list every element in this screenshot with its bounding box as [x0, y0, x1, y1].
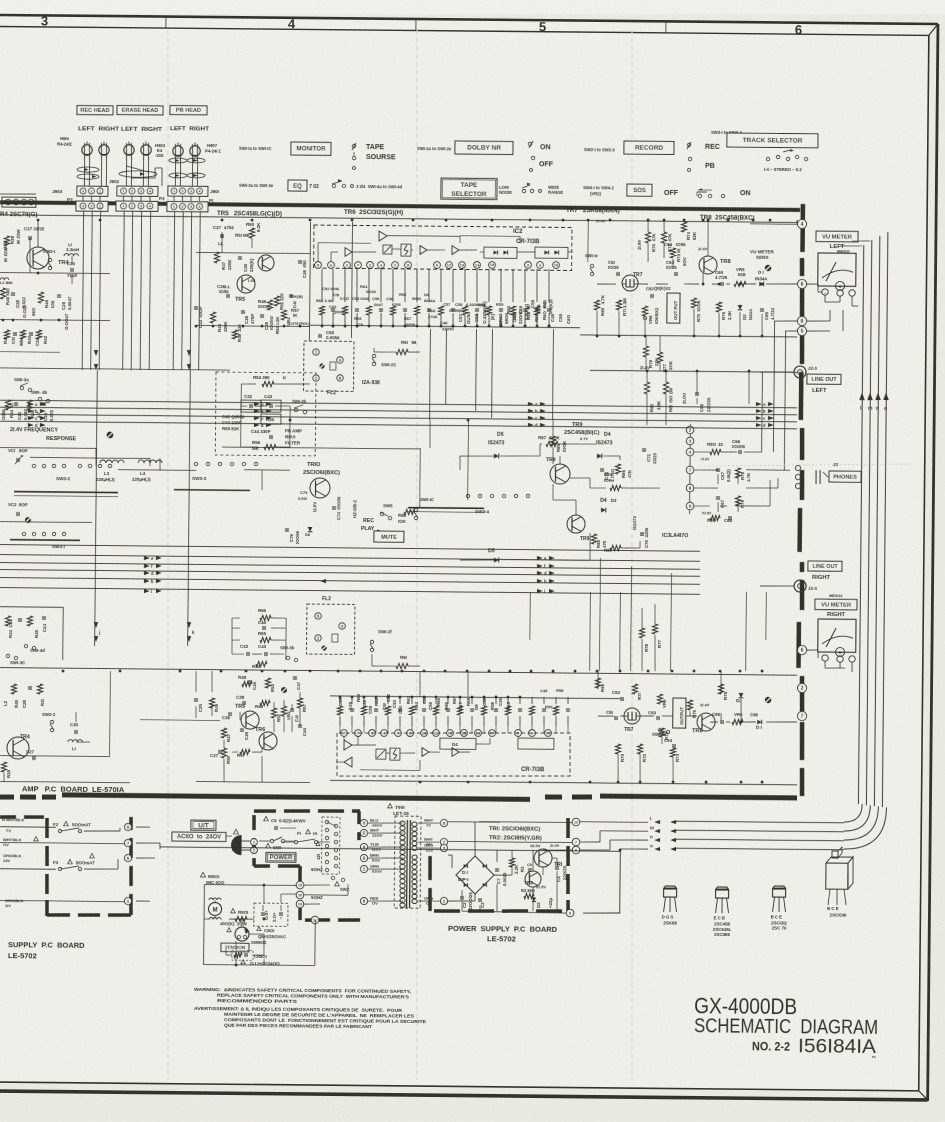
label box U/T [191, 820, 216, 830]
svg-text:R47: R47 [221, 261, 226, 270]
IC2 diode box 1 [484, 247, 517, 258]
svg-text:8OOmAT: 8OOmAT [76, 860, 95, 865]
svg-text:R69: R69 [600, 683, 605, 692]
connector P2 [116, 201, 158, 211]
svg-text:SWI-Ia to SWI-IC: SWI-Ia to SWI-IC [239, 146, 272, 151]
label box PB HEAD [170, 106, 207, 115]
phone jack symbol [815, 470, 817, 484]
vu meter left body [818, 253, 856, 286]
power supply pins right [572, 818, 580, 826]
svg-text:23V: 23V [3, 858, 10, 863]
svg-text:C6I: C6I [606, 710, 613, 715]
label box PHONES [829, 471, 861, 482]
arrow down j [94, 636, 98, 642]
svg-text:ERASE HEAD: ERASE HEAD [122, 108, 159, 114]
svg-text:D I: D I [756, 725, 762, 730]
svg-text:0.02I: 0.02I [340, 296, 349, 301]
svg-text:R67: R67 [452, 695, 457, 704]
svg-text:R3: R3 [520, 866, 525, 872]
switch row SW3-1 [22, 532, 25, 535]
svg-text:OFF: OFF [539, 161, 554, 168]
svg-text:Q0(K)X2: Q0(K)X2 [654, 286, 671, 291]
svg-text:RIGHT: RIGHT [812, 575, 831, 581]
svg-text:C28: C28 [15, 299, 20, 308]
AC plug symbol [231, 835, 241, 854]
svg-text:ON: ON [540, 144, 551, 151]
svg-text:O.O22: O.O22 [22, 305, 27, 319]
svg-text:SWI- 4b: SWI- 4b [31, 390, 47, 395]
wire TR4 rail [0, 273, 110, 274]
svg-text:IN34A: IN34A [755, 276, 768, 281]
svg-text:D4: D4 [604, 432, 611, 438]
svg-text:VC2 8OP: VC2 8OP [8, 502, 28, 507]
svg-text:C43: C43 [258, 644, 267, 649]
svg-text:D5: D5 [497, 432, 504, 438]
label box ERASE HEAD [117, 106, 163, 115]
wires lmno taps upper right [745, 592, 748, 671]
svg-text:C44: C44 [258, 620, 267, 625]
svg-text:IO.8V: IO.8V [702, 511, 712, 515]
svg-text:IC3LA4I7O: IC3LA4I7O [662, 533, 688, 539]
svg-text:D8: D8 [474, 704, 479, 710]
svg-text:I2A-938: I2A-938 [362, 380, 380, 386]
svg-text:C33 IOOP: C33 IOOP [198, 306, 203, 328]
svg-text:R74: R74 [686, 231, 691, 240]
rail below TR8 y371 [590, 370, 797, 372]
svg-text:C30: C30 [67, 261, 76, 266]
svg-text:IOOK: IOOK [562, 440, 567, 452]
svg-text:47P(K): 47P(K) [296, 321, 309, 326]
shield ellipse erase (long) [119, 171, 157, 178]
terminal circled 2c [686, 426, 694, 434]
svg-text:C66: C66 [764, 311, 769, 320]
upper channel bottom rail right [580, 335, 797, 337]
svg-text:VU METER: VU METER [821, 602, 852, 608]
primary select contacts [325, 820, 328, 823]
connector P3 [76, 201, 108, 211]
primary taps [360, 819, 367, 826]
record switch contacts [687, 143, 690, 146]
svg-text:SW3-2: SW3-2 [56, 476, 71, 481]
svg-text:-200: -200 [155, 153, 164, 158]
svg-text:5: 5 [801, 329, 804, 335]
svg-text:4: 4 [288, 16, 296, 31]
svg-text:R83: R83 [596, 539, 601, 548]
connector J901 [168, 186, 208, 196]
svg-text:TR6: TR6 [255, 727, 265, 733]
IC3 pin edge line [689, 424, 692, 514]
svg-text:R46: R46 [44, 299, 49, 308]
svg-text:LEFT RIGHT LEFT RIGHT: LEFT RIGHT LEFT RIGHT [78, 126, 163, 133]
svg-text:C76: C76 [289, 533, 294, 542]
phones wires [694, 451, 710, 453]
jack J3 phones circles [795, 465, 800, 470]
lower diode box 1 [440, 738, 476, 749]
svg-text:22O/25: 22O/25 [562, 865, 567, 880]
svg-text:n: n [876, 406, 879, 412]
svg-text:R69 4.7K: R69 4.7K [600, 294, 605, 316]
svg-text:4: 4 [801, 222, 804, 228]
svg-text:3: 3 [82, 189, 84, 193]
svg-text:R6I: R6I [400, 655, 407, 660]
svg-text:C34: C34 [43, 412, 48, 421]
svg-text:56O: 56O [31, 307, 36, 316]
svg-text:C40: C40 [252, 681, 257, 690]
power primary dashed thick box [254, 809, 276, 813]
svg-text:1: 1 [122, 204, 124, 208]
svg-text:C42: C42 [244, 394, 253, 399]
svg-text:22O/IO: 22O/IO [518, 309, 523, 324]
supply pin 8 [124, 823, 131, 830]
wires ps to lmno [580, 821, 648, 824]
vu sens screw lower [765, 697, 771, 703]
svg-text:R58 IK: R58 IK [526, 304, 531, 320]
svg-text:R67: R67 [498, 313, 503, 322]
svg-text:J90I: J90I [210, 189, 219, 194]
resistor box R55 [261, 414, 281, 424]
svg-text:28.9V: 28.9V [530, 843, 541, 848]
lower slash box [376, 749, 386, 759]
svg-text:J903: J903 [52, 189, 63, 194]
terminal circled 8 [797, 316, 806, 325]
connector P1 [167, 202, 208, 212]
svg-text:RECOMMENDED PARTS: RECOMMENDED PARTS [217, 998, 297, 1004]
IC2 bottom rail [310, 325, 580, 328]
tape head symbol 1 [82, 145, 92, 155]
dotted crease line right [700, 462, 912, 468]
svg-text:SW2-I: SW2-I [43, 249, 55, 254]
svg-text:LINE OUT: LINE OUT [811, 377, 837, 383]
svg-text:2SC458(BI(C): 2SC458(BI(C) [564, 430, 600, 436]
svg-text:H90I: H90I [60, 136, 69, 141]
svg-text:i: i [544, 589, 545, 594]
svg-text:ME9O2: ME9O2 [829, 593, 843, 598]
svg-text:330K: 330K [223, 321, 228, 332]
svg-text:2OK: 2OK [668, 360, 673, 370]
label box DOLBY NR [455, 141, 513, 155]
svg-text:C58: C58 [482, 697, 487, 706]
svg-text:L2 IMH: L2 IMH [0, 281, 13, 285]
switch row SW3-2 [32, 464, 35, 467]
svg-text:VR6: VR6 [648, 315, 653, 324]
svg-text:220K: 220K [227, 259, 232, 270]
svg-text:R66: R66 [399, 292, 407, 297]
lower left wires [0, 756, 110, 757]
wires meters to lmno [840, 245, 862, 247]
wires to line out left [640, 487, 660, 489]
svg-text:0.00I: 0.00I [298, 496, 307, 501]
dolby switch contacts [528, 142, 531, 145]
svg-text:IOK: IOK [398, 519, 407, 524]
amp board bus line (thick) [0, 202, 800, 210]
svg-text:C7: C7 [496, 878, 501, 884]
svg-text:SWI-3a to SWI-3e: SWI-3a to SWI-3e [239, 183, 274, 188]
svg-text:C57: C57 [443, 302, 451, 307]
label box LINE OUT right [808, 561, 842, 571]
svg-text:C49: C49 [550, 313, 555, 322]
terminal circled 2r [797, 683, 806, 692]
svg-text:MONITOR: MONITOR [296, 146, 326, 153]
svg-text:3: 3 [190, 205, 192, 209]
svg-text:C5I: C5I [333, 292, 339, 297]
wires J to P connectors [82, 196, 84, 201]
supply wires [0, 826, 56, 829]
svg-text:47K: 47K [627, 469, 632, 478]
svg-text:5: 5 [539, 19, 546, 34]
svg-text:IK I/2W: IK I/2W [16, 228, 21, 244]
svg-text:L2: L2 [3, 700, 8, 706]
svg-text:R76: R76 [723, 691, 728, 700]
svg-text:R73 IK: R73 IK [676, 248, 681, 263]
lower rail 671 [0, 668, 797, 676]
svg-text:270K: 270K [428, 314, 438, 319]
label box VU METER left [816, 231, 858, 242]
svg-text:R59: R59 [496, 302, 504, 307]
label box TRACK SELECTOR [727, 133, 818, 148]
resistor R901 400ohm 20W [231, 908, 236, 912]
svg-text:R7I: R7I [637, 693, 642, 700]
svg-text:R63: R63 [406, 695, 411, 704]
svg-text:22.5V: 22.5V [536, 885, 546, 889]
vu meter terminals [822, 289, 828, 295]
svg-text:R8O: R8O [707, 442, 717, 447]
svg-text:C30: C30 [70, 722, 79, 727]
svg-text:TR8: TR8 [720, 259, 731, 265]
svg-text:REC HEAD: REC HEAD [80, 108, 109, 114]
svg-text:82K: 82K [692, 231, 697, 240]
wire stub left 369 [0, 368, 230, 370]
svg-text:I-4 ~ STEREO ~ 5-2: I-4 ~ STEREO ~ 5-2 [764, 167, 802, 172]
IC2 diode box 2 [535, 247, 568, 258]
terminal circled 4b [686, 448, 694, 456]
svg-text:N WHT/BLK: N WHT/BLK [2, 817, 25, 822]
svg-text:RIGHT: RIGHT [827, 612, 846, 618]
svg-text:R62: R62 [374, 697, 379, 706]
svg-text:42I: 42I [316, 854, 321, 860]
svg-text:2I.9V: 2I.9V [637, 240, 642, 250]
svg-text:SENS: SENS [756, 255, 769, 260]
svg-text:R53: R53 [270, 683, 275, 692]
svg-text:C53: C53 [392, 699, 397, 708]
svg-text:3.3mH: 3.3mH [66, 247, 79, 252]
svg-text:SWI-3C: SWI-3C [10, 660, 26, 665]
svg-text:TR4: TR4 [20, 734, 30, 740]
label box TENSION [221, 943, 249, 952]
svg-text:R43: R43 [27, 335, 32, 344]
svg-text:REC: REC [363, 518, 374, 524]
svg-text:IOO/I6: IOO/I6 [295, 530, 300, 544]
svg-text:40O(K) 2OW: 40O(K) 2OW [220, 921, 248, 926]
svg-text:C52 IO/I6: C52 IO/I6 [322, 286, 340, 291]
svg-text:I56I84IA: I56I84IA [798, 1035, 876, 1058]
svg-text:i: i [151, 589, 152, 594]
bus lines lower e f d b i [0, 545, 700, 552]
label box MUTE [374, 531, 404, 542]
secondary taps [418, 822, 440, 824]
svg-text:IO/I6: IO/I6 [219, 289, 229, 294]
IC2 opamp D [452, 246, 459, 255]
svg-text:2SC 7II: 2SC 7II [772, 926, 787, 931]
svg-text:IS2473: IS2473 [488, 440, 505, 446]
svg-text:2I.4V: 2I.4V [698, 246, 708, 251]
svg-text:IO/I6: IO/I6 [676, 242, 686, 247]
svg-text:LL: LL [218, 241, 224, 246]
svg-text:C3: C3 [480, 902, 485, 908]
terminal circled 6r [797, 645, 806, 654]
svg-text:j: j [98, 630, 100, 635]
lower opamp C [422, 748, 429, 757]
svg-text:R54 390: R54 390 [253, 375, 270, 380]
svg-text:PB: PB [705, 163, 715, 170]
svg-text:R6O I8O: R6O I8O [542, 301, 547, 320]
output box lower [673, 698, 686, 728]
svg-text:J2-4: J2-4 [808, 586, 817, 591]
svg-text:B C E: B C E [827, 906, 839, 911]
svg-text:ACIIO to 24OV: ACIIO to 24OV [177, 834, 221, 840]
lower dolby dashed outline [337, 731, 571, 779]
svg-text:R77: R77 [657, 639, 662, 648]
svg-text:M: M [212, 907, 217, 913]
switch SW902 circle [235, 927, 249, 941]
svg-text:3: 3 [190, 189, 192, 193]
wires pb filter lower [232, 617, 240, 619]
svg-text:6: 6 [575, 848, 577, 852]
svg-text:BIP-I: BIP-I [458, 877, 469, 882]
svg-text:R65: R65 [436, 697, 441, 706]
switch SW1 power [266, 843, 271, 848]
svg-text:R70 47K: R70 47K [651, 233, 656, 252]
svg-text:C46 I/50: C46 I/50 [302, 260, 307, 278]
svg-text:R72: R72 [642, 753, 647, 762]
label box VU METER right [815, 599, 857, 610]
transistor TR7 fet [622, 275, 638, 291]
svg-text:TV: TV [6, 828, 11, 833]
svg-text:C43: C43 [264, 394, 273, 399]
svg-text:IIOV: IIOV [682, 257, 687, 266]
svg-text:C67: C67 [720, 499, 725, 508]
svg-text:R62 3.3K: R62 3.3K [316, 298, 333, 303]
svg-text:(K): (K) [490, 313, 495, 320]
inductor L3 220uH [100, 460, 106, 463]
svg-text:C27 33/25: C27 33/25 [24, 226, 45, 231]
capacitor C901 label [257, 927, 261, 931]
connector J902 [117, 186, 158, 196]
svg-text:C44 330P: C44 330P [251, 429, 271, 434]
vu meter wiring [807, 283, 818, 285]
IC2 lightning box [401, 244, 411, 256]
svg-text:LE-5702: LE-5702 [487, 934, 516, 943]
frame corner mitre top-right [929, 24, 938, 36]
svg-text:HZ-I2B-2: HZ-I2B-2 [352, 499, 357, 518]
svg-text:23V: 23V [426, 848, 433, 853]
svg-text:C45: C45 [498, 697, 503, 706]
wires lmno curves [676, 821, 844, 823]
wires pb amp filter [240, 384, 243, 447]
tape head symbol 2 [99, 145, 109, 155]
svg-text:C37: C37 [213, 225, 222, 230]
svg-text:J902: J902 [109, 179, 120, 184]
wires tr7 tr8 region [587, 220, 589, 262]
arrowheads l m n o up [859, 392, 865, 400]
svg-text:9: 9 [569, 911, 571, 915]
svg-text:D6: D6 [305, 532, 311, 537]
svg-text:C43 220P: C43 220P [222, 420, 242, 425]
svg-text:R4I: R4I [40, 699, 45, 706]
svg-text:LI: LI [72, 746, 76, 751]
svg-text:L4: L4 [140, 471, 146, 476]
svg-text:3.3K: 3.3K [727, 310, 732, 320]
svg-text:TR6 2SCI3I2S(G)(H): TR6 2SCI3I2S(G)(H) [344, 209, 403, 217]
svg-text:C66: C66 [750, 712, 759, 717]
transformer secondary winding lower [412, 855, 417, 859]
warn triangle SW2 [335, 881, 340, 885]
frame corner mitre bottom-right [919, 1091, 928, 1100]
svg-text:l: l [650, 816, 651, 821]
terminal circled 7r [797, 711, 806, 720]
svg-text:R7I 3.3M: R7I 3.3M [622, 298, 627, 316]
svg-text:C47: C47 [296, 681, 301, 690]
svg-text:TRACK SELECTOR: TRACK SELECTOR [743, 137, 803, 145]
svg-text:2SCI8I5: 2SCI8I5 [714, 932, 730, 937]
svg-text:R75: R75 [692, 709, 697, 718]
filter FL2 lower dashed box [306, 604, 354, 654]
label box EQ [288, 180, 307, 191]
terminal circled 9b [686, 502, 694, 510]
svg-text:C54 IO/I6: C54 IO/I6 [352, 296, 370, 301]
svg-text:SWI-2a to SWI-2e: SWI-2a to SWI-2e [417, 146, 452, 151]
track selector contacts [766, 157, 769, 160]
svg-text:TAPE: TAPE [461, 182, 479, 189]
switch row SW3-3 [194, 462, 197, 465]
svg-text:NO. 2-2: NO. 2-2 [752, 1041, 790, 1053]
right edge of supply box [129, 817, 133, 830]
svg-text:N34A: N34A [748, 308, 753, 320]
transistor TR10 [310, 478, 330, 498]
svg-text:R52: R52 [276, 713, 281, 722]
filter FL2 dashed box [304, 341, 354, 391]
sw3-3 bar [174, 489, 250, 492]
svg-text:TAPE: TAPE [366, 144, 385, 151]
power pins 15 10 19 [296, 881, 304, 889]
svg-text:R87 IOOK: R87 IOOK [538, 435, 561, 440]
svg-text:2I.OV: 2I.OV [682, 393, 687, 404]
svg-text:SUPPLY P.C BOARD: SUPPLY P.C BOARD [8, 940, 85, 950]
svg-text:C6 0.0(2)I.4KWV: C6 0.0(2)I.4KWV [271, 818, 306, 823]
svg-text:R42: R42 [43, 335, 48, 344]
svg-text:DOLBY NR: DOLBY NR [467, 145, 501, 152]
jack J2-4 [794, 580, 806, 592]
vu meter right body [818, 619, 856, 652]
svg-text:CR-7I3B: CR-7I3B [521, 767, 545, 773]
svg-text:M9OI: M9OI [208, 874, 219, 879]
bus lines a b c d [0, 400, 797, 408]
svg-text:IC2: IC2 [513, 229, 523, 235]
svg-text:SW3-3: SW3-3 [192, 476, 207, 481]
lower IC component symbols [337, 706, 342, 715]
wires heads to J connectors [83, 160, 85, 186]
pin 21 [311, 916, 319, 924]
wires terminals to phones verticals [774, 320, 797, 323]
svg-text:P2: P2 [159, 196, 165, 201]
svg-text:0.0033: 0.0033 [502, 872, 507, 886]
lower left component box [0, 606, 63, 609]
svg-text:0.0I(2): 0.0I(2) [726, 469, 731, 482]
IC2 opamp B [345, 248, 352, 257]
svg-text:C39: C39 [243, 263, 248, 272]
lower diode box 2 [518, 738, 554, 749]
lower opamp B (left facing) [344, 757, 352, 767]
svg-text:NOISE: NOISE [499, 190, 512, 195]
